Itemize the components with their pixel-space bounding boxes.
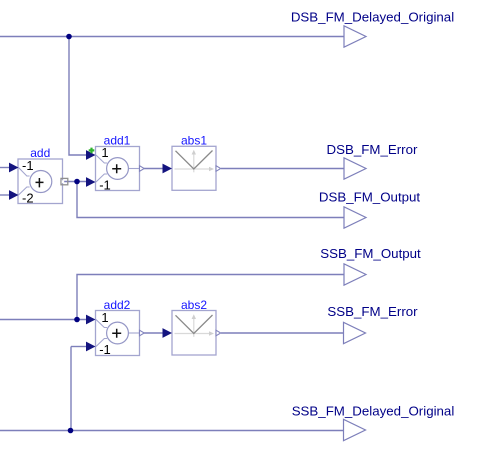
svg-text:SSB_FM_Output: SSB_FM_Output	[320, 246, 421, 261]
svg-text:-1: -1	[99, 342, 111, 357]
svg-text:SSB_FM_Delayed_Original: SSB_FM_Delayed_Original	[292, 404, 455, 419]
svg-text:add1: add1	[104, 134, 131, 148]
svg-text:add2: add2	[104, 298, 131, 312]
svg-text:add: add	[30, 146, 50, 160]
svg-text:abs2: abs2	[181, 298, 207, 312]
svg-text:-1: -1	[22, 158, 34, 173]
svg-text:DSB_FM_Output: DSB_FM_Output	[319, 190, 421, 205]
svg-text:SSB_FM_Error: SSB_FM_Error	[327, 304, 418, 319]
svg-text:1: 1	[101, 310, 108, 325]
svg-text:DSB_FM_Delayed_Original: DSB_FM_Delayed_Original	[291, 10, 454, 25]
svg-text:abs1: abs1	[181, 134, 207, 148]
svg-text:-1: -1	[99, 177, 111, 192]
svg-text:-2: -2	[22, 190, 34, 205]
svg-text:DSB_FM_Error: DSB_FM_Error	[327, 142, 418, 157]
